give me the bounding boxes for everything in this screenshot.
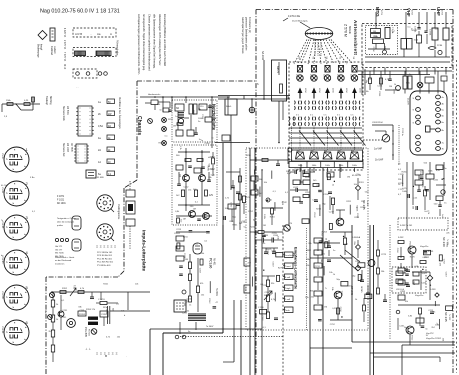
svg-text:C231: C231: [445, 242, 447, 248]
svg-text:C231: C231: [254, 232, 260, 234]
svg-text:Ξ: Ξ: [116, 352, 118, 356]
svg-text:C203 R204: C203 R204: [372, 122, 383, 124]
svg-text:1M: 1M: [183, 218, 186, 220]
svg-text:SchG: SchG: [226, 106, 232, 108]
svg-text:C231: C231: [62, 310, 68, 312]
svg-text:C231: C231: [315, 266, 321, 268]
svg-text:4Ω: 4Ω: [108, 126, 111, 128]
svg-text:C252: C252: [184, 186, 190, 188]
svg-text:SA 1010: SA 1010: [261, 51, 264, 61]
svg-text:C261: C261: [355, 261, 361, 263]
svg-text:Vng=11a: Vng=11a: [420, 246, 429, 248]
svg-text:Lichtspannungen gemessen mit R: Lichtspannungen gemessen mit Röhrenvoltm…: [137, 14, 141, 76]
svg-text:UHF: UHF: [436, 7, 441, 16]
svg-text:4 020 TA: 4 020 TA: [63, 28, 66, 38]
svg-text:Ξ: Ξ: [110, 245, 112, 249]
svg-text:codiert: codiert: [53, 46, 56, 54]
svg-text:Ant: Ant: [311, 150, 315, 153]
svg-text:C262: C262: [396, 248, 398, 254]
svg-text:Trend: Trend: [285, 265, 291, 268]
svg-text:C231: C231: [422, 283, 428, 285]
svg-text:prüfen: prüfen: [57, 224, 64, 227]
svg-text:F-3601A: F-3601A: [352, 236, 361, 239]
svg-text:C219: C219: [176, 229, 182, 231]
svg-text:M 10: M 10: [63, 64, 65, 70]
svg-text:PCL 805 Rö 501: PCL 805 Rö 501: [97, 262, 114, 264]
svg-text:PL36: PL36: [1, 154, 3, 160]
svg-text:R211: R211: [346, 201, 352, 203]
svg-text:mit eingestrahlt. Signal ohne: mit eingestrahlt. Signal ohne Antennensi…: [142, 14, 146, 71]
svg-text:PY88: PY88: [1, 188, 3, 194]
svg-text:Herzbereichs: Herzbereichs: [148, 93, 160, 96]
svg-text:PC86: PC86: [437, 45, 443, 47]
svg-text:EN 1003: EN 1003: [66, 143, 68, 153]
svg-text:C262: C262: [229, 202, 231, 208]
svg-text:Tr 401: Tr 401: [366, 200, 369, 207]
svg-text:C252: C252: [248, 211, 254, 213]
svg-text:C252: C252: [433, 179, 439, 181]
svg-text:8 mA: 8 mA: [285, 276, 290, 279]
svg-text:Wk 7005: Wk 7005: [55, 253, 64, 255]
svg-text:R270: R270: [421, 182, 423, 188]
svg-text:C231: C231: [80, 310, 86, 312]
svg-text:C273: C273: [381, 254, 387, 256]
svg-text:C204: C204: [244, 286, 246, 292]
svg-text:F-283: F-283: [430, 289, 436, 291]
svg-text:2 070 TA: 2 070 TA: [63, 40, 66, 50]
svg-text:R242: R242: [410, 335, 412, 341]
svg-text:1a VHF: 1a VHF: [374, 148, 383, 151]
svg-text:7 070 TA: 7 070 TA: [63, 52, 66, 62]
svg-text:R261: R261: [402, 171, 408, 173]
svg-text:R3705: R3705: [79, 314, 86, 316]
svg-text:R221: R221: [408, 242, 410, 248]
svg-text:4L CH: 4L CH: [1, 185, 7, 187]
svg-text:SF 245: SF 245: [444, 312, 448, 322]
svg-text:Ξ: Ξ: [107, 245, 109, 249]
svg-text:C231: C231: [399, 326, 405, 328]
svg-text:R262: R262: [306, 250, 312, 252]
svg-text:C219: C219: [242, 221, 248, 223]
svg-text:R211: R211: [354, 217, 360, 219]
svg-text:R211: R211: [288, 159, 294, 161]
svg-text:R242: R242: [208, 298, 210, 304]
svg-text:0,1/TA 4 Ra: 0,1/TA 4 Ra: [288, 15, 301, 18]
svg-text:Bildfäng: Bildfäng: [49, 96, 52, 105]
svg-text:Durchlass u. ber. Äusserungen: Durchlass u. ber. Äusserungen: [118, 97, 121, 129]
svg-text:C219: C219: [444, 272, 446, 278]
svg-text:R231: R231: [246, 155, 252, 157]
svg-text:PCL 86 Rö 401: PCL 86 Rö 401: [97, 258, 113, 260]
svg-text:Rö 7505: Rö 7505: [70, 143, 72, 152]
svg-text:R242: R242: [250, 227, 256, 229]
svg-text:Ξ: Ξ: [114, 245, 116, 249]
svg-text:A R B: A R B: [75, 32, 82, 36]
svg-text:2A: 2A: [98, 149, 101, 152]
svg-text:C252: C252: [330, 324, 336, 326]
svg-text:Oszillogramme: Oszillogramme: [117, 204, 120, 220]
svg-text:C231: C231: [312, 199, 318, 201]
svg-text:Aa: Aa: [97, 32, 101, 36]
svg-text:Ξ: Ξ: [100, 352, 102, 356]
svg-text:Z 570 M: Z 570 M: [344, 24, 348, 37]
svg-text:F-282 Ta 201: F-282 Ta 201: [400, 225, 413, 227]
svg-text:R270: R270: [360, 207, 366, 209]
svg-text:C204: C204: [372, 47, 374, 53]
svg-text:1M: 1M: [389, 86, 392, 88]
svg-text:PCC88: PCC88: [1, 292, 3, 300]
svg-text:Leuchtstreu: Leuchtstreu: [285, 254, 297, 257]
svg-text:Antennenbrett: Antennenbrett: [353, 20, 358, 55]
svg-text:Ta 3601: Ta 3601: [215, 288, 217, 297]
svg-text:VHF: VHF: [406, 8, 411, 17]
svg-text:Ant: Ant: [297, 150, 301, 153]
svg-text:Abweichungen ±10% zulässig bei: Abweichungen ±10% zulässig bei 220V Netz: [158, 14, 162, 66]
svg-text:R706 17k: R706 17k: [86, 309, 96, 311]
svg-text:Chassis gemessen im geheizten: Chassis gemessen im geheizten Betriebszu…: [147, 14, 151, 71]
svg-text:A: A: [110, 32, 112, 36]
svg-text:an der Rückwand: an der Rückwand: [55, 259, 72, 262]
svg-text:C252: C252: [201, 114, 203, 120]
svg-text:1703: 1703: [441, 10, 443, 16]
svg-text:Führerschalter: Führerschalter: [116, 40, 119, 56]
svg-text:1701: 1701: [380, 10, 382, 16]
svg-text:Rö 1001: Rö 1001: [57, 203, 66, 205]
svg-text:1M: 1M: [185, 259, 188, 261]
svg-text:51 MΩ: 51 MΩ: [97, 177, 104, 179]
svg-text:C1708: C1708: [429, 29, 431, 36]
svg-text:R211: R211: [419, 171, 421, 177]
svg-text:C231: C231: [183, 301, 185, 307]
svg-text:1A: 1A: [98, 161, 101, 164]
svg-text:C247: C247: [293, 187, 299, 189]
svg-text:F-282: F-282: [398, 237, 404, 239]
svg-text:Ξ: Ξ: [100, 245, 102, 249]
svg-text:C3702: C3702: [101, 314, 108, 316]
svg-text:1M: 1M: [239, 223, 242, 225]
svg-text:R270: R270: [316, 209, 322, 211]
svg-text:für Antenne (1): für Antenne (1): [248, 17, 251, 33]
svg-text:1M: 1M: [263, 225, 266, 227]
svg-text:C252: C252: [305, 192, 311, 194]
svg-text:C219: C219: [271, 262, 273, 268]
svg-text:Vng=11a C2202: Vng=11a C2202: [426, 338, 442, 340]
svg-text:Ξ: Ξ: [112, 352, 114, 356]
svg-text:C204: C204: [341, 291, 343, 297]
svg-text:R261: R261: [270, 216, 276, 218]
svg-text:C2001: C2001: [174, 233, 181, 235]
svg-text:Ξ: Ξ: [96, 352, 98, 356]
svg-text:R261: R261: [378, 91, 380, 97]
svg-text:Empfangs-Leiterplatte: Empfangs-Leiterplatte: [294, 247, 299, 290]
svg-text:C204: C204: [205, 143, 211, 145]
svg-text:Winkelstück u. Gerät: Winkelstück u. Gerät: [55, 256, 75, 259]
svg-text:Impuls-Leiterplatte: Impuls-Leiterplatte: [142, 230, 147, 272]
svg-text:1M: 1M: [320, 259, 322, 262]
svg-text:Ant: Ant: [351, 150, 355, 153]
svg-text:R261: R261: [359, 182, 365, 184]
svg-text:C 3705: C 3705: [105, 307, 107, 315]
svg-text:Bildrohr: Bildrohr: [348, 26, 351, 34]
svg-text:R261: R261: [232, 224, 238, 226]
svg-text:C 3701: C 3701: [98, 299, 106, 301]
svg-text:Ξ: Ξ: [96, 245, 98, 249]
svg-text:⊥ ⊥: ⊥ ⊥: [85, 347, 91, 351]
svg-text:C262: C262: [443, 259, 445, 265]
svg-text:C219: C219: [329, 211, 335, 213]
svg-text:C231: C231: [61, 317, 67, 319]
svg-text:EN 5001: EN 5001: [66, 106, 68, 116]
svg-text:C204: C204: [322, 232, 328, 234]
svg-text:C262: C262: [261, 316, 263, 322]
svg-text:alle Spannungswerte ohne Signa: alle Spannungswerte ohne Signal bei Nenn…: [153, 14, 157, 69]
svg-text:F-281: F-281: [428, 251, 434, 253]
svg-text:Chassis: Chassis: [136, 116, 142, 135]
svg-text:1M: 1M: [173, 125, 176, 127]
svg-text:PCL85: PCL85: [1, 222, 3, 229]
svg-text:R242: R242: [313, 213, 315, 219]
svg-text:Gb 177: Gb 177: [55, 249, 63, 251]
svg-text:Tonfr: Tonfr: [285, 309, 290, 312]
svg-text:R221: R221: [267, 249, 273, 251]
svg-text:1b UHF: 1b UHF: [375, 159, 384, 162]
svg-text:C270 1n: C270 1n: [401, 128, 403, 137]
svg-text:R702: R702: [62, 288, 68, 290]
svg-text:PCC 88 Rö 101: PCC 88 Rö 101: [97, 252, 113, 254]
svg-text:Siemens Rück: Siemens Rück: [62, 106, 64, 122]
svg-text:Nag 010.20-75 60.0 IV 1 18: Nag 010.20-75 60.0 IV 1 18 1731: [40, 8, 120, 14]
svg-text:Rö 401: Rö 401: [213, 258, 215, 266]
svg-text:PCL86: PCL86: [1, 327, 3, 334]
svg-text:C231: C231: [272, 233, 278, 235]
svg-text:C204: C204: [339, 307, 341, 313]
svg-text:SF245: SF245: [360, 286, 362, 293]
svg-text:R211: R211: [230, 221, 236, 223]
svg-text:R261: R261: [159, 143, 165, 145]
svg-text:Farbrad: Farbrad: [50, 46, 53, 55]
svg-text:Tastkopf: Tastkopf: [45, 96, 48, 105]
svg-text:43-190: 43-190: [407, 98, 409, 105]
svg-text:Ant: Ant: [338, 150, 342, 153]
svg-text:Ts: Ts: [1, 220, 3, 222]
svg-text:Tastgeräte u. Okular: Tastgeräte u. Okular: [57, 217, 76, 220]
svg-text:F 1021: F 1021: [57, 199, 65, 201]
svg-text:C 270: C 270: [398, 174, 404, 176]
svg-text:. .: . .: [76, 85, 79, 89]
svg-text:PCF80: PCF80: [1, 257, 3, 265]
svg-text:Ξ: Ξ: [108, 352, 110, 356]
svg-text:Gleichspannungen gegen Chassis: Gleichspannungen gegen Chassis: [241, 17, 244, 54]
svg-text:Ta 3607: Ta 3607: [206, 326, 214, 328]
svg-text:Einstellung Bildbreite und Höh: Einstellung Bildbreite und Höhe nach Tes…: [163, 14, 167, 67]
svg-text:montieren: montieren: [55, 262, 65, 265]
svg-text:C219: C219: [428, 310, 434, 312]
svg-text:Gb 171: Gb 171: [55, 246, 63, 248]
svg-text:C204: C204: [324, 194, 330, 196]
svg-text:R221: R221: [168, 119, 174, 121]
svg-text:C219: C219: [183, 253, 185, 259]
svg-text:1M: 1M: [193, 209, 196, 211]
svg-text:C219: C219: [199, 268, 201, 274]
svg-text:PCF 80 Rö 201: PCF 80 Rö 201: [97, 255, 113, 257]
svg-text:R221: R221: [103, 284, 109, 286]
svg-text:PCL86: PCL86: [209, 258, 213, 268]
svg-text:Tr 202: Tr 202: [448, 314, 451, 321]
svg-text:Bedienungs-: Bedienungs-: [37, 44, 40, 58]
svg-text:0,5A: 0,5A: [98, 125, 103, 128]
svg-text:R211: R211: [183, 237, 189, 239]
svg-text:1M: 1M: [347, 177, 350, 179]
svg-text:1M: 1M: [324, 307, 327, 309]
svg-text:knopf: knopf: [40, 44, 43, 50]
svg-text:··: ··: [90, 32, 92, 36]
svg-text:PY 88 Rö 601: PY 88 Rö 601: [97, 265, 111, 267]
svg-text:25c: 25c: [44, 310, 46, 313]
svg-text:Tr: Tr: [325, 287, 327, 290]
svg-text:PCL 805: PCL 805: [84, 327, 88, 338]
svg-text:gemessen Betriebswerte gelten: gemessen Betriebswerte gelten: [245, 17, 248, 51]
svg-text:MB 5: MB 5: [276, 66, 280, 73]
svg-text:Ξ: Ξ: [103, 245, 105, 249]
svg-text:1702: 1702: [411, 10, 413, 16]
svg-text:C231: C231: [377, 85, 383, 87]
svg-text:F 1871: F 1871: [57, 196, 65, 198]
svg-text:C 280: C 280: [258, 307, 264, 309]
svg-text:R270: R270: [398, 183, 404, 185]
svg-text:12V: 12V: [209, 195, 214, 197]
svg-text:Ξ: Ξ: [104, 352, 106, 356]
svg-text:C246: C246: [294, 169, 300, 171]
svg-text:Vng=11a: Vng=11a: [415, 295, 424, 297]
svg-text:Rö 501: Rö 501: [88, 329, 90, 337]
svg-text:Ant: Ant: [324, 150, 328, 153]
svg-text:1 mA: 1 mA: [285, 298, 290, 301]
svg-text:Siemens Zeil: Siemens Zeil: [62, 143, 64, 157]
svg-text:R270: R270: [278, 268, 284, 270]
svg-text:Trägfr: Trägfr: [285, 287, 291, 290]
svg-text:R270: R270: [410, 257, 416, 259]
svg-text:L261 0,4: L261 0,4: [396, 289, 405, 291]
svg-text:Dr: Dr: [409, 73, 412, 76]
